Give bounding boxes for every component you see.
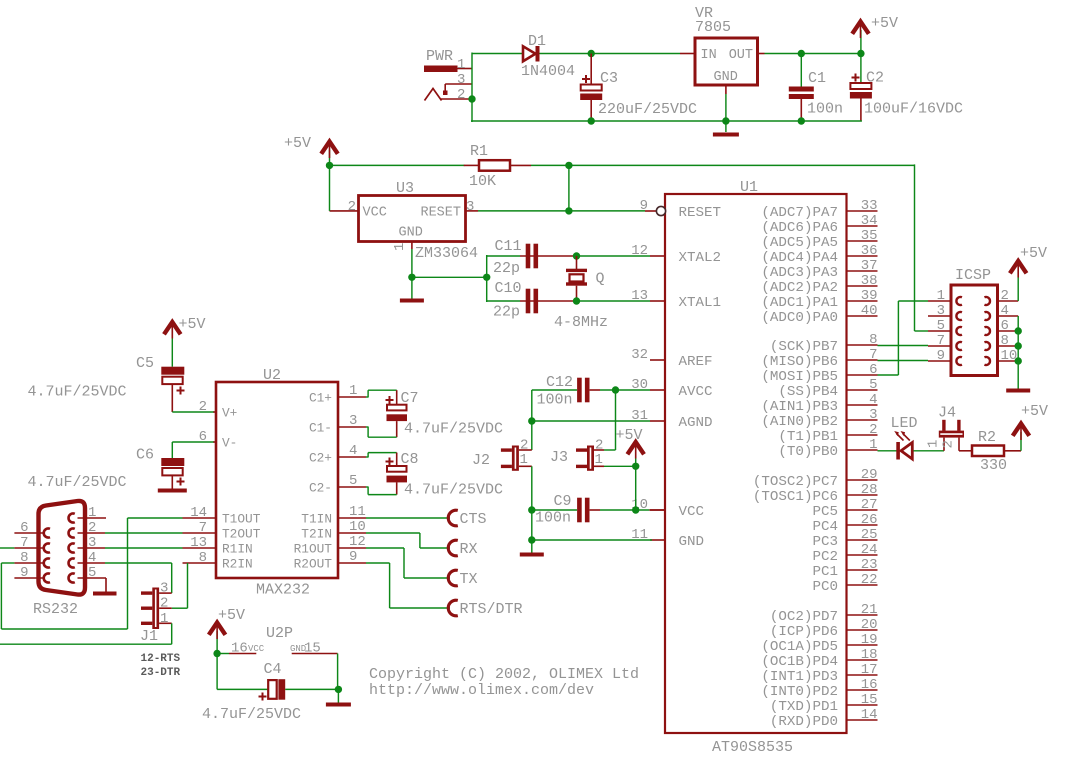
wire RS232 pin3 to R1IN (105, 547, 183, 549)
jumper J2 (472, 438, 532, 471)
svg-text:2: 2 (869, 422, 877, 438)
svg-text:1: 1 (457, 57, 465, 73)
U1 pin 20 (ICP)PD6 (770, 617, 878, 640)
junction OUT/C2 (857, 50, 864, 57)
svg-text:1: 1 (520, 452, 528, 468)
svg-text:PC0: PC0 (812, 579, 838, 595)
power +5V (C5) (164, 316, 206, 367)
capacitor C12 100n (537, 374, 590, 409)
svg-text:(INT0)PD2: (INT0)PD2 (761, 684, 838, 700)
wire ICSP gnd vertical (1017, 316, 1019, 389)
svg-text:(T0)PB0: (T0)PB0 (778, 444, 838, 460)
connector RS232 (DB9) (14, 501, 106, 618)
svg-text:10K: 10K (469, 173, 496, 190)
wire AVCC to J3 pin2 (604, 390, 616, 450)
svg-text:(OC2)PD7: (OC2)PD7 (770, 609, 838, 625)
U1 pin 40 (ADC0)PA0 (761, 303, 877, 326)
U1 pin 30 AVCC (631, 377, 712, 400)
svg-text:2: 2 (160, 596, 168, 612)
svg-text:9: 9 (640, 198, 648, 214)
svg-text:C6: C6 (136, 447, 154, 464)
svg-text:14: 14 (861, 707, 878, 723)
svg-text:7805: 7805 (695, 19, 731, 36)
capacitor C6 4.7uF/25VDC (28, 447, 185, 492)
svg-text:(ADC3)PA3: (ADC3)PA3 (761, 265, 838, 281)
U1 pin 34 (ADC6)PA6 (761, 213, 877, 236)
wire U2 C1+ to C7 (366, 390, 397, 405)
svg-text:24: 24 (861, 542, 878, 558)
svg-text:+5V: +5V (871, 15, 898, 32)
svg-text:RS232: RS232 (33, 601, 78, 618)
terminal RTS/DTR (448, 600, 522, 618)
svg-text:3: 3 (160, 581, 168, 597)
wire U2P pin15 to C4 (285, 654, 338, 690)
wire GND row (532, 539, 652, 541)
svg-text:1: 1 (392, 243, 408, 251)
svg-text:CTS: CTS (460, 511, 487, 528)
svg-text:4.7uF/25VDC: 4.7uF/25VDC (202, 706, 301, 723)
wire reset vertical (568, 165, 570, 211)
svg-text:R2: R2 (978, 429, 996, 446)
junction +5V node (326, 162, 333, 169)
U1 pin 35 (ADC5)PA5 (761, 228, 877, 251)
svg-text:(MISO)PB6: (MISO)PB6 (761, 354, 838, 370)
svg-text:100uF/16VDC: 100uF/16VDC (864, 101, 963, 118)
wire PB7 to ICSP pin7 (878, 345, 929, 347)
junction rail/C3 (588, 117, 595, 124)
wire RS232 pin5 to gnd (105, 578, 107, 592)
U1 pin 7 (MISO)PB6 (761, 347, 877, 370)
wire 7805 OUT to +5V (765, 53, 861, 55)
svg-text:(ADC2)PA2: (ADC2)PA2 (761, 280, 838, 296)
capacitor C3 220uF/25VDC (580, 54, 697, 122)
wire PB5 to ICSP pin1 (878, 301, 929, 375)
svg-text:4-8MHz: 4-8MHz (554, 314, 608, 331)
svg-text:1N4004: 1N4004 (521, 63, 575, 80)
svg-text:C11: C11 (495, 238, 522, 255)
ground (under 7805) (713, 133, 739, 137)
svg-text:(SCK)PB7: (SCK)PB7 (770, 339, 838, 355)
svg-text:+5V: +5V (284, 135, 311, 152)
svg-text:(OC1A)PD5: (OC1A)PD5 (761, 639, 838, 655)
svg-text:R2OUT: R2OUT (294, 557, 333, 572)
terminal CTS (448, 510, 486, 528)
wire R2OUT to RTS/DTR (366, 563, 450, 608)
svg-text:OUT: OUT (729, 48, 753, 63)
ground (under U3) (400, 299, 424, 303)
wire LED to J4 (914, 450, 945, 452)
junction PWR pin2 (468, 95, 475, 102)
svg-text:2: 2 (941, 440, 957, 448)
resistor R1 10K (464, 143, 531, 190)
U1 pin 3 (AIN0)PB2 (761, 407, 877, 430)
U1 pin 11 GND (631, 527, 704, 550)
svg-text:3: 3 (869, 407, 877, 423)
svg-text:(AIN0)PB2: (AIN0)PB2 (761, 414, 838, 430)
wire U3 GND to crystal gnd rail (412, 276, 487, 278)
connector J1 (140, 581, 172, 645)
svg-text:C10: C10 (495, 280, 522, 297)
U1 pin 16 (INT0)PD2 (761, 677, 877, 700)
capacitor C9 100n (535, 493, 590, 527)
ground (C6) (158, 489, 187, 493)
svg-text:(ADC4)PA4: (ADC4)PA4 (761, 250, 838, 266)
svg-text:RTS/DTR: RTS/DTR (460, 601, 523, 618)
ground (mid) (520, 553, 544, 557)
svg-text:C2+: C2+ (309, 451, 332, 466)
svg-text:12: 12 (631, 243, 648, 259)
svg-text:1: 1 (349, 383, 357, 399)
IC U1 AT90S8535 (665, 179, 847, 756)
wire C8 to U2 C2- (366, 482, 397, 494)
svg-text:PC4: PC4 (812, 519, 838, 535)
svg-text:IN: IN (701, 48, 717, 63)
junction reset net (565, 207, 572, 214)
diode D1 1N4004 (521, 33, 575, 80)
svg-text:U2P: U2P (266, 625, 293, 642)
U1 pin 17 (INT1)PD3 (761, 662, 877, 685)
ground (RS232 pin5) (93, 592, 117, 596)
svg-text:2: 2 (1001, 288, 1009, 304)
svg-text:V-: V- (222, 436, 237, 451)
svg-text:4: 4 (349, 443, 357, 459)
svg-text:28: 28 (861, 482, 878, 498)
svg-text:100n: 100n (535, 510, 571, 527)
svg-text:16: 16 (861, 677, 878, 693)
label 12-RTS 23-DTR (141, 653, 181, 679)
svg-text:C1: C1 (808, 70, 826, 87)
svg-text:1: 1 (937, 288, 945, 304)
junction ICSP pin10 (1015, 357, 1022, 364)
svg-text:5: 5 (869, 377, 877, 393)
svg-text:4.7uF/25VDC: 4.7uF/25VDC (28, 474, 127, 491)
svg-text:V+: V+ (222, 406, 237, 421)
svg-text:19: 19 (861, 632, 878, 648)
jumper J4 (926, 405, 965, 451)
svg-text:R1: R1 (470, 143, 488, 160)
svg-text:J1: J1 (140, 628, 158, 645)
svg-text:3: 3 (937, 303, 945, 319)
svg-text:6: 6 (1001, 318, 1009, 334)
wire T2IN to RX (366, 533, 450, 548)
svg-text:GND: GND (679, 534, 705, 550)
svg-text:7: 7 (869, 347, 877, 363)
U1 pin 38 (ADC2)PA2 (761, 273, 877, 296)
svg-text:Q: Q (596, 271, 605, 288)
svg-text:C2-: C2- (309, 481, 332, 496)
label copyright (369, 666, 639, 699)
svg-text:+5V: +5V (616, 427, 643, 444)
svg-text:C1+: C1+ (309, 391, 332, 406)
junction XTAL1/Q (573, 297, 580, 304)
svg-text:(ADC0)PA0: (ADC0)PA0 (761, 310, 838, 326)
svg-text:22p: 22p (493, 304, 520, 321)
svg-text:39: 39 (861, 288, 878, 304)
U1 pin 8 (SCK)PB7 (770, 332, 878, 355)
junction ICSP pin8 (1015, 342, 1022, 349)
voltage regulator VR 7805 (680, 5, 765, 94)
wire RS232 pin8 loop to T1OUT (1, 518, 182, 629)
U1 pin 5 (SS)PB4 (778, 377, 877, 400)
capacitor C10 22p (493, 280, 538, 321)
svg-text:36: 36 (861, 243, 878, 259)
junction rail/C1 (798, 117, 805, 124)
svg-text:12-RTS: 12-RTS (141, 653, 181, 665)
U1 pin 6 (MOSI)PB5 (761, 362, 877, 385)
svg-text:13: 13 (190, 535, 207, 551)
junction AGND (528, 417, 535, 424)
svg-text:T2OUT: T2OUT (222, 527, 261, 542)
svg-text:22: 22 (861, 572, 878, 588)
power +5V (J3/VCC) (616, 427, 645, 466)
svg-text:(ADC7)PA7: (ADC7)PA7 (761, 205, 838, 221)
svg-text:15: 15 (861, 692, 878, 708)
svg-text:C5: C5 (136, 355, 154, 372)
svg-text:Copyright (C) 2002, OLIMEX Ltd: Copyright (C) 2002, OLIMEX Ltd (369, 666, 639, 683)
wire +5V to R1 (330, 164, 465, 166)
U1 pin 24 PC2 (812, 542, 877, 565)
U1 pin 21 (OC2)PD7 (770, 602, 878, 625)
svg-text:T2IN: T2IN (301, 527, 332, 542)
U1 pin 23 PC1 (812, 557, 877, 580)
U1 pin 9 RESET (640, 198, 721, 221)
svg-text:RX: RX (460, 541, 478, 558)
svg-text:9: 9 (937, 348, 945, 364)
junction rail/7805 GND (722, 117, 729, 124)
svg-text:TX: TX (460, 571, 478, 588)
wire gnd stem (411, 277, 413, 298)
power +5V (main) (284, 135, 338, 165)
svg-text:14: 14 (190, 505, 207, 521)
svg-text:(T1)PB1: (T1)PB1 (778, 429, 838, 445)
wire cap gnd vertical (486, 255, 488, 302)
jumper J3 (550, 438, 604, 471)
U1 pin 29 (TOSC2)PC7 (753, 467, 878, 490)
svg-text:21: 21 (861, 602, 878, 618)
wire J3 pin1 to VCC (604, 465, 636, 467)
wire ground rail (PSU bottom) (471, 120, 862, 122)
svg-text:6: 6 (869, 362, 877, 378)
power +5V (U2P) (209, 607, 245, 654)
junction GND rail (528, 536, 535, 543)
resistor R2 330 (959, 429, 1021, 474)
svg-text:(ADC6)PA6: (ADC6)PA6 (761, 220, 838, 236)
svg-text:PC2: PC2 (812, 549, 838, 565)
svg-text:34: 34 (861, 213, 878, 229)
wire J2 pin1 to gnd rail (531, 466, 533, 541)
svg-text:AGND: AGND (679, 415, 713, 431)
U1 pin 2 (T1)PB1 (778, 422, 877, 445)
svg-text:3: 3 (349, 413, 357, 429)
wire 7805 GND to rail (725, 94, 727, 132)
wire gnd stem (C4) (337, 689, 339, 702)
svg-text:1: 1 (926, 440, 942, 448)
wire R2IN to J1 pin2 (172, 563, 188, 608)
svg-text:XTAL1: XTAL1 (679, 295, 722, 311)
svg-text:5: 5 (937, 318, 945, 334)
svg-text:220uF/25VDC: 220uF/25VDC (598, 101, 697, 118)
svg-text:R2IN: R2IN (222, 557, 253, 572)
wire PB0 to LED (878, 450, 897, 452)
svg-text:(MOSI)PB5: (MOSI)PB5 (761, 369, 838, 385)
wire U2 C2+ to C8 (366, 453, 397, 466)
svg-text:+5V: +5V (1021, 403, 1048, 420)
wire RS232 pin4 to J1 pin3 (105, 563, 172, 593)
svg-text:ICSP: ICSP (955, 267, 991, 284)
svg-text:PC1: PC1 (812, 564, 838, 580)
U1 pin 28 (TOSC1)PC6 (753, 482, 878, 505)
svg-text:4.7uF/25VDC: 4.7uF/25VDC (404, 421, 503, 438)
U1 pin 19 (OC1A)PD5 (761, 632, 877, 655)
svg-text:ZM33064: ZM33064 (415, 245, 478, 262)
ground (C4) (326, 703, 351, 707)
svg-text:(AIN1)PB3: (AIN1)PB3 (761, 399, 838, 415)
wire +5V to C4 (217, 654, 268, 690)
svg-text:27: 27 (861, 497, 878, 513)
junction D1/C3 (588, 50, 595, 57)
svg-text:J4: J4 (938, 405, 956, 422)
svg-text:GND: GND (714, 70, 738, 85)
svg-text:VCC: VCC (363, 206, 387, 221)
svg-text:8: 8 (1001, 333, 1009, 349)
wire J1 pin1 to edge (0, 623, 172, 644)
wire RESET rail to ICSP pin5 (915, 164, 929, 331)
crystal Q 4-8MHz (554, 256, 608, 331)
svg-text:PC3: PC3 (812, 534, 838, 550)
svg-text:PC5: PC5 (812, 504, 838, 520)
svg-text:5: 5 (349, 473, 357, 489)
junction R1/reset (565, 162, 572, 169)
terminal RX (448, 540, 477, 558)
svg-text:10: 10 (349, 519, 366, 535)
svg-text:(TOSC2)PC7: (TOSC2)PC7 (753, 474, 838, 490)
wire C7 to U2 C1- (366, 421, 397, 437)
svg-text:13: 13 (631, 288, 648, 304)
svg-text:100n: 100n (807, 101, 843, 118)
svg-text:9: 9 (349, 549, 357, 565)
svg-text:C4: C4 (264, 661, 282, 678)
svg-text:VCC: VCC (248, 644, 265, 654)
svg-text:23: 23 (861, 557, 878, 573)
svg-text:11: 11 (349, 504, 366, 520)
svg-text:4: 4 (869, 392, 877, 408)
svg-text:3: 3 (466, 199, 474, 215)
wire PB6 to ICSP pin9 (878, 360, 929, 362)
svg-text:C9: C9 (554, 493, 572, 510)
U1 pin 25 PC3 (812, 527, 877, 550)
svg-text:2: 2 (457, 87, 465, 103)
svg-text:+5V: +5V (1020, 245, 1047, 262)
U1 pin 18 (OC1B)PD4 (761, 647, 877, 670)
svg-text:4: 4 (1001, 303, 1009, 319)
junction C4/gnd (335, 686, 342, 693)
svg-text:C12: C12 (546, 374, 573, 391)
svg-text:25: 25 (861, 527, 878, 543)
svg-text:100n: 100n (537, 392, 573, 409)
wire D1 to 7805 IN (540, 53, 681, 55)
U1 pin 37 (ADC3)PA3 (761, 258, 877, 281)
svg-text:MAX232: MAX232 (256, 582, 310, 599)
connector PWR (424, 48, 472, 103)
U1 pin 1 (T0)PB0 (778, 437, 877, 460)
svg-text:+5V: +5V (218, 607, 245, 624)
wire XTAL2 row (487, 255, 650, 257)
svg-text:C1-: C1- (309, 421, 332, 436)
IC power U2P (217, 625, 338, 657)
svg-text:38: 38 (861, 273, 878, 289)
wire VCC row (532, 509, 665, 511)
junction AVCC/J3 (612, 386, 619, 393)
svg-text:4.7uF/25VDC: 4.7uF/25VDC (404, 482, 503, 499)
power +5V (top right) (852, 15, 898, 54)
junction crystal gnd rail (483, 274, 490, 281)
svg-text:22p: 22p (493, 260, 520, 277)
svg-text:1: 1 (595, 452, 603, 468)
wire T1IN to CTS (366, 517, 450, 519)
U1 pin 14 (RXD)PD0 (770, 707, 878, 730)
junction U2P VCC (213, 650, 220, 657)
svg-text:GND: GND (399, 226, 423, 241)
svg-text:(RXD)PD0: (RXD)PD0 (770, 714, 838, 730)
svg-text:4.7uF/25VDC: 4.7uF/25VDC (28, 384, 127, 401)
wire XTAL1 row (487, 300, 650, 302)
wire U3 GND down (411, 249, 413, 277)
svg-text:LED: LED (891, 415, 918, 432)
svg-text:J2: J2 (472, 452, 490, 469)
junction OUT/C1 (798, 50, 805, 57)
junction J3/VCC (632, 463, 639, 470)
svg-text:(ADC5)PA5: (ADC5)PA5 (761, 235, 838, 251)
wire AGND rail (532, 390, 650, 450)
wire gnd stem (mid) (531, 540, 533, 553)
svg-text:PWR: PWR (426, 48, 453, 65)
capacitor C4 4.7uF/25VDC (202, 661, 301, 723)
power +5V (R2) (1013, 403, 1048, 451)
terminal TX (448, 570, 477, 588)
svg-text:20: 20 (861, 617, 878, 633)
svg-text:R1IN: R1IN (222, 542, 253, 557)
U1 pin 31 AGND (631, 408, 712, 431)
svg-text:23-DTR: 23-DTR (141, 667, 181, 679)
svg-text:AVCC: AVCC (679, 384, 713, 400)
junction U3 GND (408, 274, 415, 281)
svg-text:18: 18 (861, 647, 878, 663)
wire V- to C6 (172, 442, 213, 458)
U1 pin 26 PC4 (812, 512, 877, 535)
svg-text:(OC1B)PD4: (OC1B)PD4 (761, 654, 838, 670)
wire U3 RESET to U1 RESET (478, 210, 645, 212)
svg-text:3: 3 (457, 72, 465, 88)
ground (ICSP) (1006, 389, 1030, 393)
svg-text:7: 7 (199, 520, 207, 536)
svg-text:40: 40 (861, 303, 878, 319)
svg-text:33: 33 (861, 198, 878, 214)
wire C5 to V+ (172, 411, 213, 413)
svg-text:(TOSC1)PC6: (TOSC1)PC6 (753, 489, 838, 505)
svg-text:12: 12 (349, 534, 366, 550)
wire AVCC row (532, 389, 650, 391)
svg-text:32: 32 (631, 347, 648, 363)
U1 pin 22 PC0 (812, 572, 877, 595)
capacitor C5 4.7uF/25VDC (28, 355, 185, 412)
U1 pin 13 XTAL1 (631, 288, 721, 311)
svg-text:7: 7 (937, 333, 945, 349)
U1 pin 27 PC5 (812, 497, 877, 520)
svg-text:T1IN: T1IN (301, 512, 332, 527)
U1 pin 33 (ADC7)PA7 (761, 198, 877, 221)
svg-text:35: 35 (861, 228, 878, 244)
IC U3 ZM33064 (330, 180, 479, 262)
